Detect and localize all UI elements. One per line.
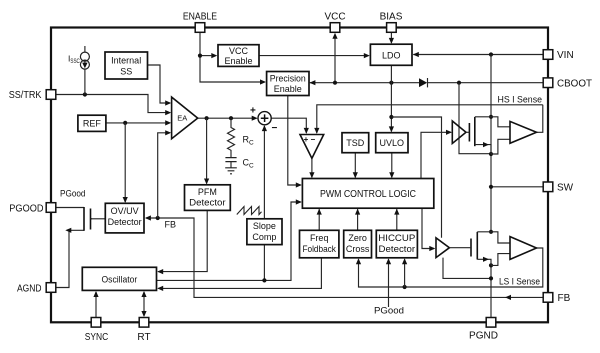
node FB-EA branch <box>156 216 160 220</box>
wire PWM logic to HS driver input <box>421 132 451 178</box>
svg-text:HICCUP: HICCUP <box>378 233 415 243</box>
node HS source <box>489 152 493 156</box>
wire PGood net stub to HICCUP detector <box>388 259 390 307</box>
wire FB pin to FB net <box>146 218 543 297</box>
wire UVLO to PWM logic <box>391 153 393 178</box>
svg-text:BIAS: BIAS <box>380 12 403 23</box>
svg-text:PFM: PFM <box>198 187 217 197</box>
block LDO <box>370 44 412 65</box>
pin FB <box>543 293 553 303</box>
wire OV/UV detector to PGood FET gate <box>91 218 106 220</box>
capacitor Cc <box>225 158 236 168</box>
svg-text:CBOOT: CBOOT <box>557 79 592 90</box>
wire VIN pin to LDO <box>413 54 543 56</box>
svg-text:LS I Sense: LS I Sense <box>499 277 540 287</box>
node LS drain <box>489 230 493 234</box>
svg-text:PGood: PGood <box>60 188 86 198</box>
svg-text:VCC: VCC <box>229 46 249 56</box>
svg-text:Zero: Zero <box>348 233 367 243</box>
wire REF down to OV/UV detector <box>124 123 126 202</box>
op-amp EA (error amplifier) <box>172 97 198 139</box>
wire Zero Cross output to PWM logic bottom <box>357 209 359 230</box>
node HS drain <box>489 115 493 119</box>
svg-text:EA: EA <box>177 114 187 123</box>
svg-text:+ −: + − <box>304 135 316 144</box>
wire VCC Enable output to LDO <box>259 55 368 57</box>
svg-text:FB: FB <box>558 293 571 304</box>
pin CBOOT <box>543 78 553 88</box>
node SW <box>489 185 493 189</box>
node rail-LDO <box>389 81 393 85</box>
node ENABLE branch <box>198 54 202 58</box>
svg-text:Detector: Detector <box>189 198 226 208</box>
wire SW node to SW pin <box>491 186 543 188</box>
block REF <box>78 115 106 131</box>
block Precision Enable <box>267 72 309 96</box>
pin PGOOD <box>46 203 56 213</box>
wire RT pin to oscillator bidirectional <box>143 292 145 316</box>
wire LS I Sense output loop to Zero Cross and HICCUP <box>359 248 543 287</box>
pin SW <box>543 182 553 192</box>
diode D1 on VCC-CBOOT rail <box>419 78 427 87</box>
resistor Rc <box>228 118 235 157</box>
wire VCC pin stub <box>334 37 336 83</box>
svg-text:UVLO: UVLO <box>380 138 405 148</box>
transistor HS FET <box>466 117 491 154</box>
svg-text:VIN: VIN <box>557 50 574 61</box>
pin PGND <box>486 318 496 328</box>
block OV/UV Detector <box>105 203 144 233</box>
node PGND-LSdriver junction <box>489 276 493 280</box>
svg-text:TSD: TSD <box>346 138 365 148</box>
svg-text:Foldback: Foldback <box>302 244 336 254</box>
PWM comparator <box>300 135 324 159</box>
svg-text:REF: REF <box>83 119 102 129</box>
wire slope comp to summing junction <box>263 126 265 280</box>
svg-text:FB: FB <box>165 220 177 230</box>
wire HS I Sense line to PWM comparator minus input <box>317 105 543 133</box>
svg-text:OV/UV: OV/UV <box>111 206 139 216</box>
wire Precision Enable to PWM logic <box>288 96 301 186</box>
transistor PGood open-drain FET <box>84 207 92 231</box>
wire EA output to summing junction <box>198 117 257 119</box>
wire PGOOD pin to PGood FET drain <box>57 207 85 209</box>
block TSD <box>342 133 369 153</box>
pin AGND <box>46 283 56 293</box>
node LDO-UVLO branch <box>389 115 393 119</box>
pin SYNC <box>91 318 101 328</box>
pin ENABLE <box>195 23 205 33</box>
node compensation branch <box>229 116 233 120</box>
amplifier LS I Sense <box>510 237 537 260</box>
svg-text:Oscillator: Oscillator <box>102 274 138 284</box>
wire Issc supply stub <box>84 46 86 52</box>
wire SW node vertical <box>490 117 492 232</box>
svg-text:Comp: Comp <box>252 232 276 242</box>
wire TSD to PWM logic <box>354 153 356 178</box>
svg-text:HS I Sense: HS I Sense <box>498 94 543 104</box>
wire HS sense amp output <box>537 105 543 133</box>
svg-text:Enable: Enable <box>274 84 302 94</box>
block Internal SS <box>105 52 148 79</box>
svg-text:Freq: Freq <box>310 233 329 243</box>
wire FB up to EA input 4 <box>158 133 170 218</box>
chip boundary <box>51 28 548 323</box>
node LS source <box>489 263 493 267</box>
wire PWM logic to LS driver input <box>422 208 434 248</box>
node EA output <box>205 116 209 120</box>
node rail-CBOOT-driver <box>457 81 461 85</box>
gate driver LS <box>436 238 449 258</box>
pin SS/TRK <box>46 90 56 100</box>
wire BIAS pin to LDO <box>390 33 392 43</box>
pin VIN <box>543 50 553 60</box>
wire LDO bottom to UVLO <box>390 65 392 131</box>
svg-text:Precision: Precision <box>270 73 306 83</box>
node VIN branch <box>489 52 493 56</box>
block UVLO <box>376 133 408 153</box>
wire VCC rail from Precision Enable to CBOOT pin <box>310 82 543 84</box>
svg-text:Detector: Detector <box>379 244 416 254</box>
svg-text:RT: RT <box>137 332 150 343</box>
wire LS sense amp bottom input <box>491 254 510 266</box>
block Zero Cross <box>344 230 372 257</box>
svg-text:PWM CONTROL LOGIC: PWM CONTROL LOGIC <box>320 189 416 200</box>
wire PWM comparator output to PWM logic <box>311 158 313 177</box>
transistor LS FET <box>449 232 491 266</box>
amplifier HS I Sense <box>510 121 537 143</box>
pin BIAS <box>387 23 397 33</box>
svg-text:PGND: PGND <box>469 331 498 342</box>
wire Issc to SS/TRK line <box>84 69 86 94</box>
node SS/TRK-Issc <box>83 92 87 96</box>
svg-text:ENABLE: ENABLE <box>183 12 217 23</box>
node ramp-slopecomp junction <box>262 278 266 282</box>
wire Freq Foldback output to PWM logic bottom <box>318 209 320 230</box>
block Oscillator <box>82 267 156 290</box>
ground below Cc <box>225 168 237 174</box>
wire summing junction to PWM comparator plus input <box>271 118 306 133</box>
svg-text:LDO: LDO <box>382 51 401 61</box>
node REF branch <box>123 121 127 125</box>
svg-text:Internal: Internal <box>111 56 141 66</box>
wire LS driver ground return <box>443 258 491 279</box>
wire PGood FET source to AGND pin <box>57 230 85 287</box>
wire SS/TRK pin to EA input 2 <box>57 95 170 113</box>
pin RT <box>139 318 149 328</box>
svg-text:SS: SS <box>120 67 132 77</box>
wire SYNC pin to oscillator <box>95 292 97 317</box>
svg-text:−: − <box>272 123 278 134</box>
wire ENABLE pin to VCC Enable and Precision Enable <box>200 33 265 83</box>
wire PFM detector to oscillator <box>158 210 207 271</box>
svg-text:Enable: Enable <box>224 56 252 66</box>
sawtooth waveform <box>237 207 262 215</box>
svg-text:Slope: Slope <box>253 221 276 231</box>
block Freq Foldback <box>300 230 339 257</box>
svg-text:PGOOD: PGOOD <box>9 204 43 215</box>
svg-text:SYNC: SYNC <box>85 332 109 343</box>
current source Issc <box>80 52 89 69</box>
wire Freq Foldback to oscillator <box>158 258 321 289</box>
wire HS sense amp bottom input <box>491 139 510 154</box>
block VCC Enable <box>218 45 259 67</box>
summing junction <box>250 106 278 135</box>
svg-text:Detector: Detector <box>108 217 142 227</box>
wire EA output down to PFM detector <box>206 118 208 183</box>
wire HICCUP output to PWM logic bottom <box>396 209 398 230</box>
node rail-VCCpin <box>333 81 337 85</box>
wire VCC to LS driver supply <box>391 117 441 238</box>
wire Internal SS output to EA input 1 <box>148 65 170 103</box>
pin VCC <box>330 23 340 33</box>
svg-text:AGND: AGND <box>17 284 42 295</box>
wire REF output to EA input 3 <box>106 122 170 124</box>
block HICCUP Detector <box>376 230 417 257</box>
svg-text:+: + <box>250 106 256 117</box>
gate driver HS <box>452 121 466 144</box>
svg-text:VCC: VCC <box>324 12 345 23</box>
svg-text:PGood: PGood <box>374 306 404 316</box>
block PWM CONTROL LOGIC <box>302 179 433 209</box>
node HICCUP zero-cross junction <box>403 285 407 289</box>
svg-text:SW: SW <box>557 183 574 194</box>
block Slope Comp <box>247 219 282 245</box>
wire CBOOT rail down through HS driver to SW node <box>459 83 491 154</box>
wire HS sense amp top input <box>491 117 510 127</box>
wire PGND vertical <box>490 265 492 317</box>
wire VIN down to HS FET drain <box>490 55 492 117</box>
svg-text:SS/TRK: SS/TRK <box>9 90 42 101</box>
wire oscillator ramp to PWM logic <box>157 202 301 280</box>
svg-text:Cross: Cross <box>346 244 370 254</box>
wire junction up to HICCUP detector <box>404 259 406 287</box>
block PFM Detector <box>185 185 231 211</box>
wire LS sense amp top input <box>491 232 510 243</box>
